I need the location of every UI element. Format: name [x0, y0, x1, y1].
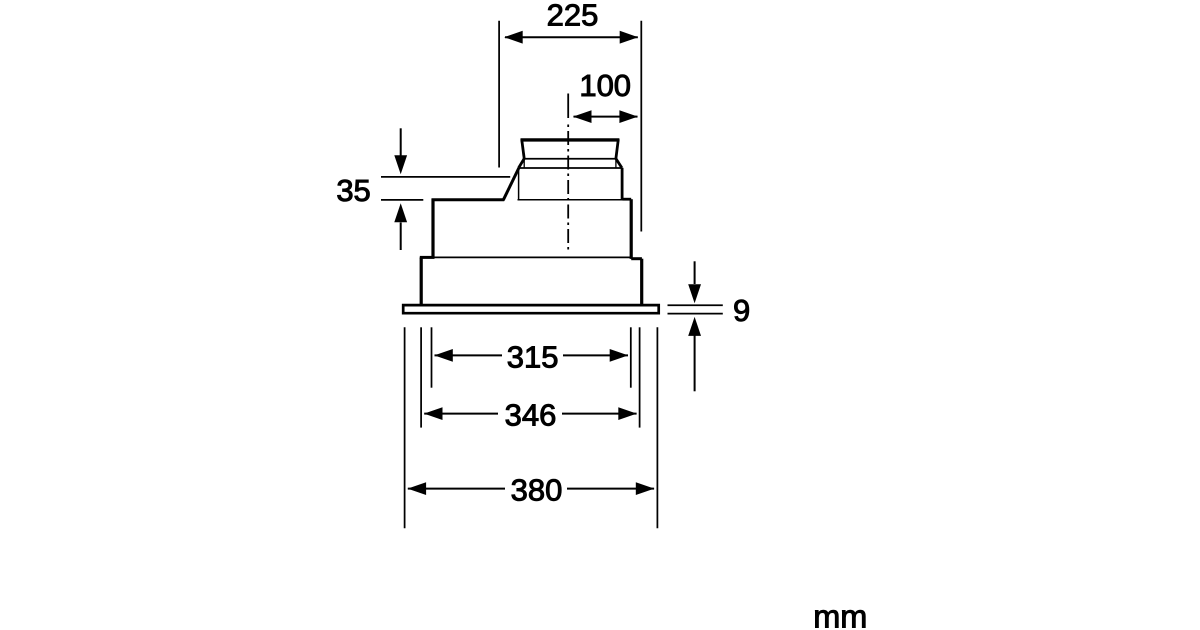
dimension 225 arrow line: [504, 31, 638, 44]
svg-text:225: 225: [547, 0, 599, 33]
svg-text:9: 9: [733, 293, 750, 328]
housing step edges: [420, 257, 642, 258]
lower housing sides: [421, 257, 642, 305]
centre line (dash-dot): [567, 94, 569, 119]
dimension 225 extension lines: [499, 21, 641, 232]
dimension 346 arrow line: [424, 407, 637, 420]
duct collar flare: [519, 159, 622, 168]
dimension 9 arrows: [688, 261, 701, 391]
upper housing sides: [433, 199, 631, 259]
svg-text:315: 315: [507, 339, 559, 374]
svg-text:346: 346: [505, 398, 557, 433]
dimension 380 arrow line: [408, 482, 655, 495]
dimension 35 arrows: [394, 128, 407, 250]
dimension 315 arrow line: [434, 349, 628, 362]
duct collar top rim: [521, 139, 620, 158]
svg-text:mm: mm: [813, 598, 867, 630]
bottom flange plate: [403, 305, 659, 313]
svg-text:380: 380: [511, 472, 563, 507]
upper housing top edge: [432, 198, 632, 202]
hood sloped face: [503, 168, 519, 200]
duct collar sides: [519, 168, 623, 200]
dimension 9 extension lines: [668, 305, 723, 313]
lower extension lines: [405, 327, 658, 528]
svg-text:100: 100: [579, 68, 631, 103]
dimension 100 arrow line: [573, 110, 638, 123]
svg-text:35: 35: [336, 173, 370, 208]
dimension 35 extension lines: [381, 177, 510, 200]
